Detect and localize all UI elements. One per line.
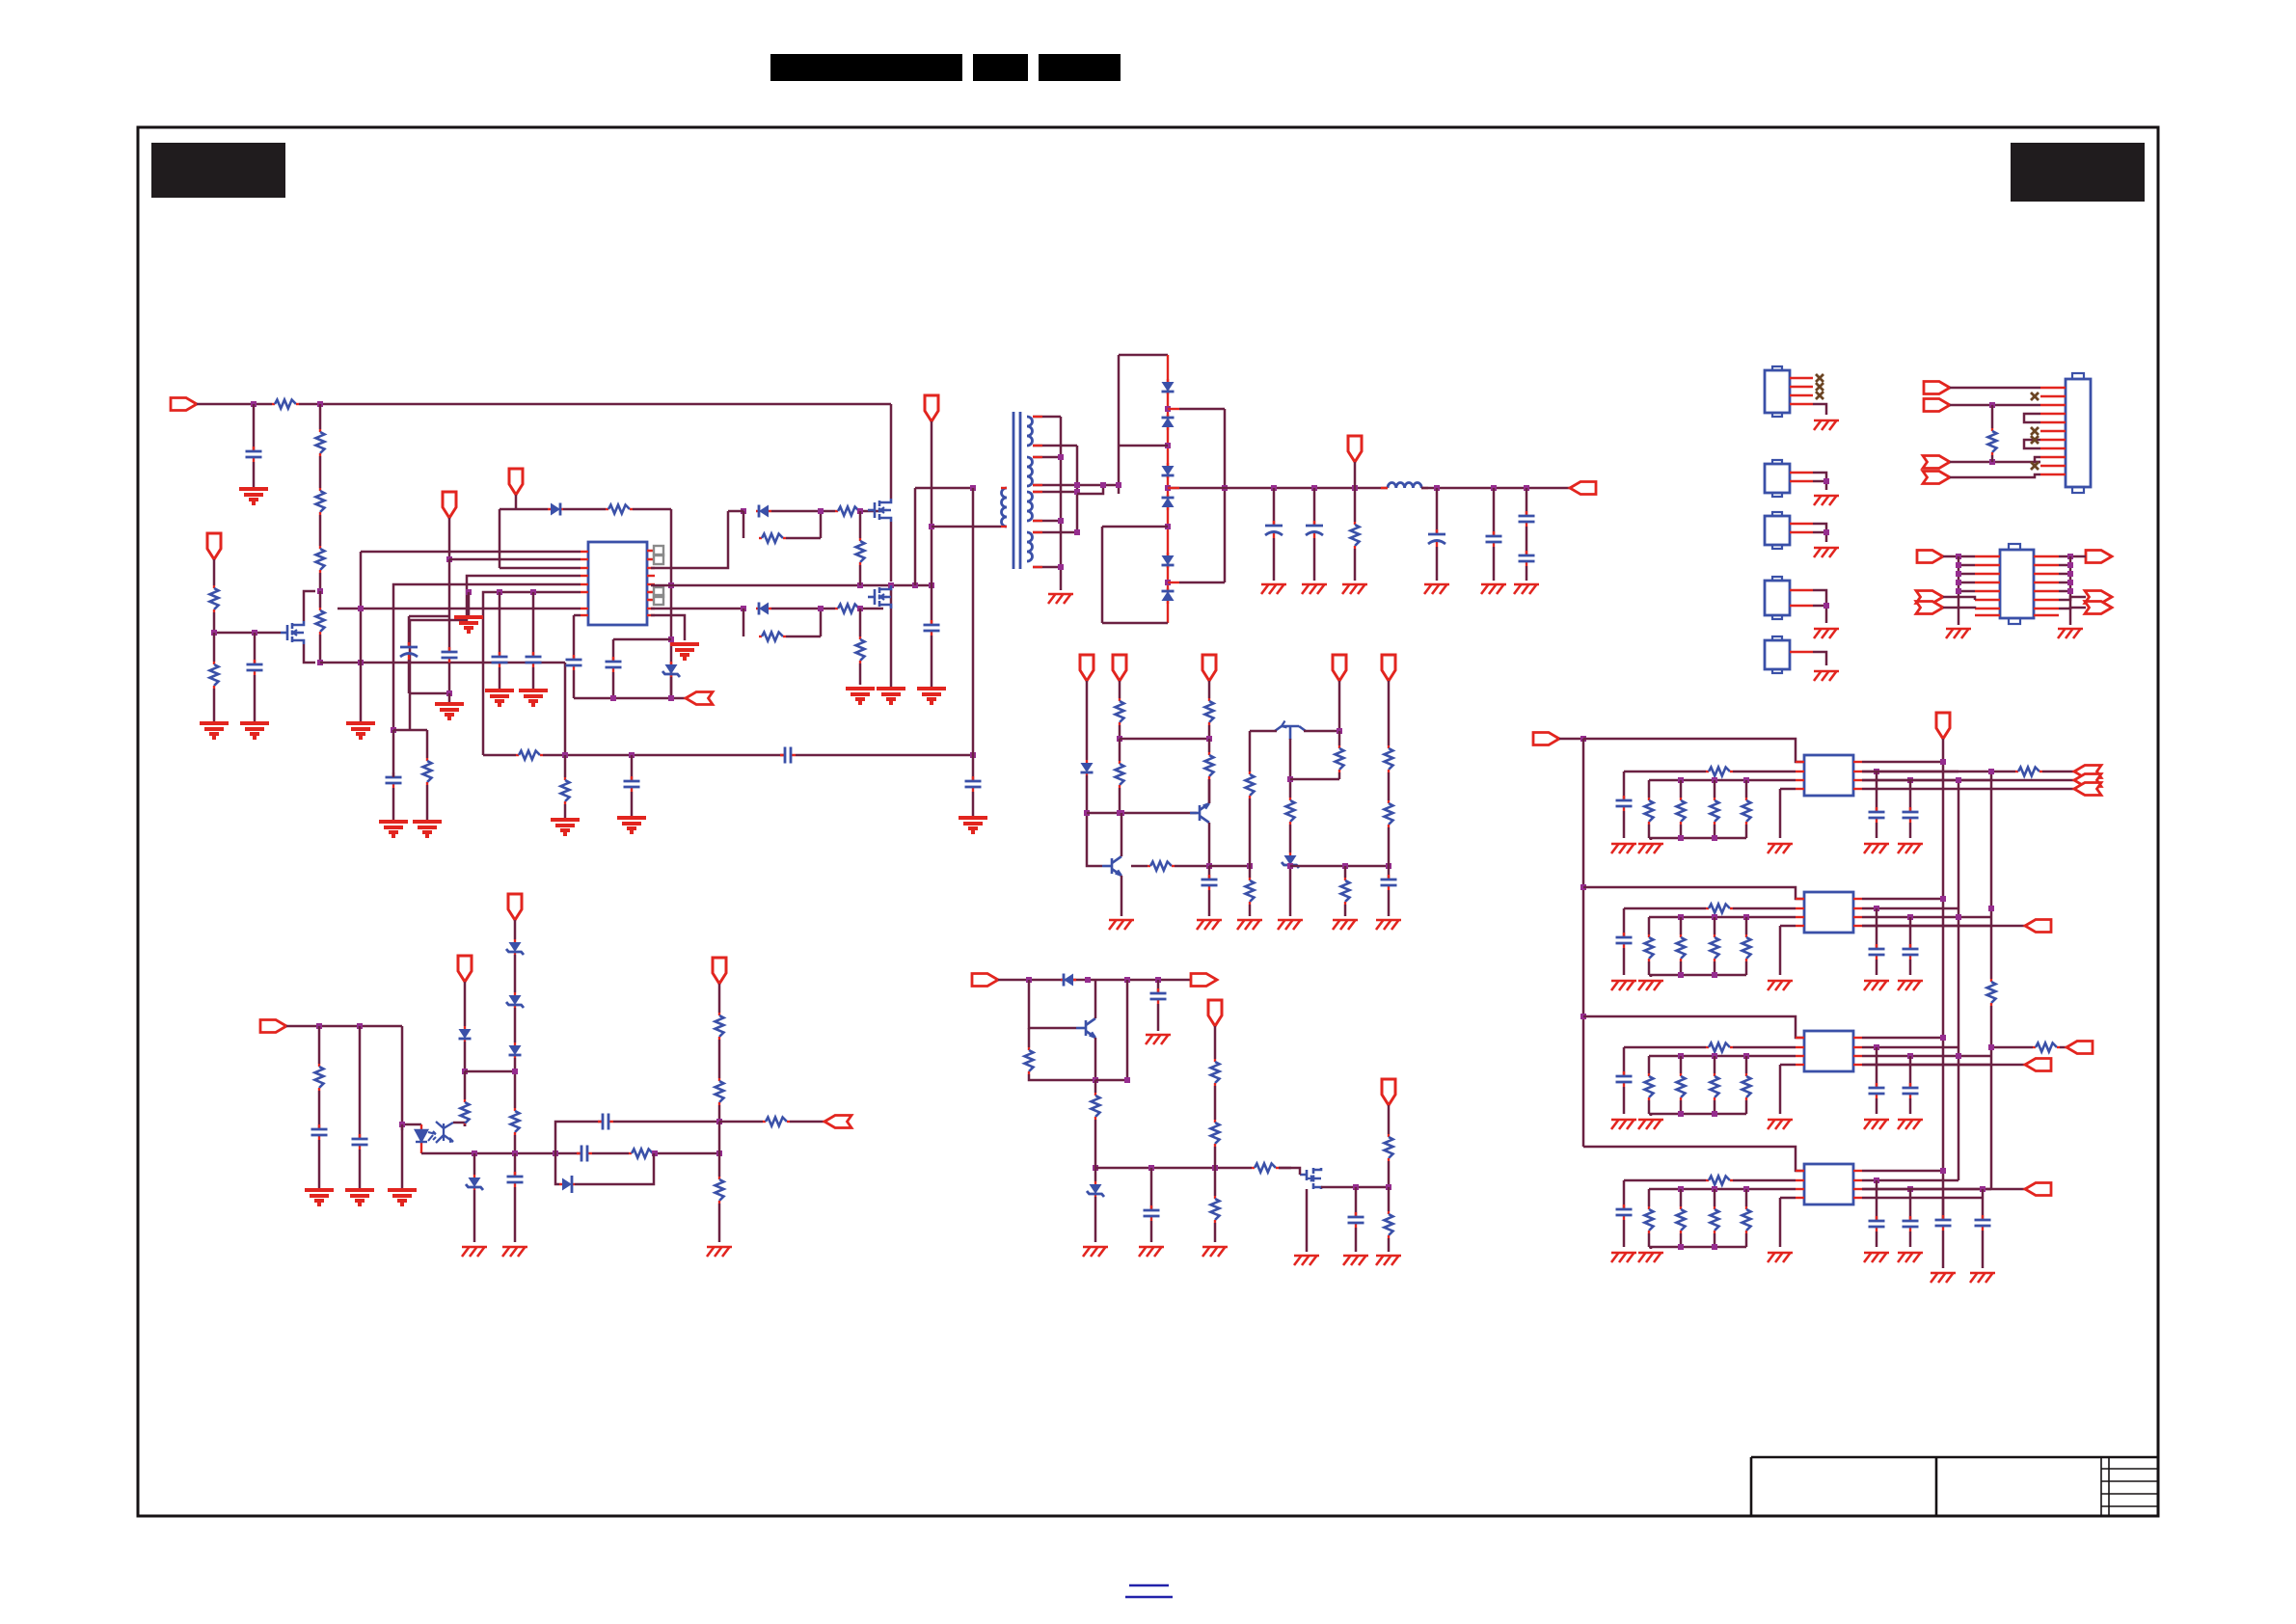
wire — [1714, 1189, 1716, 1206]
wire LED4 output — [1862, 1188, 2025, 1191]
wire — [1388, 866, 1391, 880]
capacitor C12 (polarized) — [1306, 521, 1323, 538]
wire rect out2 / main bus — [1168, 487, 1225, 490]
output tag FB — [686, 692, 713, 705]
resistor R15 — [856, 636, 865, 663]
wire — [1909, 1098, 1912, 1114]
junction — [399, 1122, 405, 1127]
wire — [514, 920, 517, 939]
junction — [1093, 1077, 1098, 1083]
junction — [1100, 482, 1106, 488]
wire CN7 right bus — [2069, 556, 2072, 625]
redaction bar 2 — [973, 54, 1028, 81]
power flag F — [458, 956, 472, 982]
junction — [1491, 485, 1497, 491]
wire — [1876, 1047, 1878, 1088]
ground — [1139, 1247, 1164, 1257]
wire — [1680, 1189, 1683, 1206]
ground — [502, 1247, 527, 1257]
wire — [1388, 1187, 1391, 1211]
wire — [631, 792, 634, 816]
wire — [426, 730, 429, 758]
junction — [1712, 1111, 1717, 1117]
junction — [610, 695, 616, 701]
wire — [1733, 1179, 1796, 1182]
junction — [912, 582, 918, 588]
resistor R47 — [2033, 1043, 2060, 1052]
diode D13 — [1061, 974, 1076, 987]
wire — [1208, 725, 1211, 739]
wire — [401, 1124, 404, 1188]
ground — [846, 689, 875, 703]
wire — [1623, 1047, 1626, 1076]
wire — [859, 565, 862, 585]
wire — [213, 689, 216, 721]
zener ZD4 — [506, 992, 524, 1008]
ground — [1611, 844, 1636, 853]
wire LED+ row — [1862, 1170, 1943, 1173]
wire — [1388, 1238, 1391, 1252]
capacitor C13 (polarized) — [1428, 529, 1445, 547]
connector CN2 — [1765, 366, 1790, 417]
wire — [1958, 590, 1975, 593]
junction — [1580, 884, 1586, 890]
wire — [318, 1091, 321, 1129]
wire LED1 row4 ext — [1991, 788, 2074, 791]
junction — [1124, 977, 1130, 983]
ground — [877, 689, 905, 703]
wire U1 pin4 net — [410, 576, 581, 730]
junction — [818, 508, 824, 514]
wire — [1648, 917, 1651, 934]
ground — [1481, 584, 1506, 594]
wire — [1249, 866, 1252, 878]
ground — [305, 1190, 334, 1204]
resistor R45 — [1987, 979, 1996, 1006]
wire — [1087, 775, 1102, 866]
wire — [1745, 1233, 1748, 1247]
wire pin4 gnd — [1780, 1064, 1796, 1067]
resistor R4 — [316, 546, 325, 573]
wire — [213, 559, 216, 585]
resistor R46 — [2015, 768, 2042, 776]
junction — [1580, 736, 1586, 742]
junction — [1823, 529, 1829, 535]
ground — [670, 644, 699, 659]
LED driver IC U20 — [1804, 892, 1853, 933]
junction — [1353, 1184, 1359, 1190]
junction — [668, 695, 674, 701]
junction — [1940, 1168, 1946, 1174]
junction — [1386, 1184, 1391, 1190]
junction — [1074, 529, 1080, 535]
wire — [575, 1153, 654, 1184]
wire S3 bottom — [1033, 520, 1061, 523]
wire — [213, 612, 216, 633]
resistor R5 — [316, 608, 325, 635]
wire LED1 enable feed — [1583, 739, 1804, 762]
resistor R28 — [1385, 800, 1393, 827]
wire — [1982, 1231, 1985, 1268]
wire — [1623, 1087, 1626, 1114]
wire — [1157, 1004, 1160, 1031]
wire — [1208, 890, 1211, 916]
ground — [1768, 1253, 1793, 1262]
junction — [857, 582, 863, 588]
wire — [1086, 681, 1089, 760]
junction — [857, 508, 863, 514]
wire — [473, 1153, 476, 1175]
wire row4 — [1862, 1064, 1991, 1067]
resistor R30 — [461, 1099, 470, 1126]
wire — [465, 1070, 515, 1073]
wire — [468, 592, 471, 615]
junction — [2067, 571, 2073, 577]
power flag A — [1080, 655, 1094, 681]
wire LED2 net row3 — [1649, 916, 1796, 919]
wire input rail — [197, 403, 272, 406]
capacitor C3 — [386, 772, 402, 788]
wire — [1313, 538, 1316, 581]
wire gate R bypass 2 — [743, 609, 745, 636]
junction — [741, 508, 746, 514]
wire aux — [914, 488, 917, 585]
ground — [1611, 1120, 1636, 1129]
junction — [358, 606, 364, 611]
junction — [1956, 914, 1961, 920]
diode D2 — [756, 505, 771, 518]
ground — [1638, 981, 1663, 990]
junction — [1074, 482, 1080, 488]
wire — [1388, 681, 1391, 745]
wire — [1648, 1233, 1651, 1247]
output tag LED1+ — [2074, 766, 2101, 778]
ground — [1333, 920, 1358, 930]
junction — [1212, 1165, 1218, 1171]
connector CN1 — [2066, 373, 2091, 493]
capacitor C1c — [1903, 807, 1919, 823]
wire — [1493, 547, 1496, 581]
wire — [514, 955, 517, 992]
junction — [1712, 914, 1717, 920]
resistor R12 — [856, 538, 865, 565]
wire — [1388, 827, 1391, 866]
wire — [612, 672, 615, 698]
wire Q8 source — [1306, 1189, 1309, 1252]
wire jog — [1290, 778, 1339, 781]
wire — [1950, 387, 2040, 390]
wire — [2059, 582, 2070, 584]
ground — [917, 689, 946, 703]
wire U1 pin7 out — [651, 608, 743, 610]
junction gate RC — [252, 630, 257, 636]
capacitor C5 — [526, 652, 542, 667]
capacitor C4d — [1935, 1215, 1952, 1231]
wire — [1876, 771, 1878, 812]
wire — [1958, 582, 1975, 584]
ground — [707, 1247, 732, 1257]
junction — [1222, 485, 1228, 491]
ground — [959, 818, 987, 832]
resistor R39 — [1252, 1164, 1279, 1173]
wire — [1650, 1114, 1653, 1116]
capacitor C23 — [598, 1114, 613, 1130]
wire — [1909, 823, 1912, 838]
ground — [1237, 920, 1262, 930]
wire — [514, 1008, 517, 1042]
resistor R3b — [1742, 1073, 1751, 1100]
wire — [1338, 772, 1341, 779]
wire — [2042, 771, 2074, 773]
wire — [1214, 1026, 1217, 1059]
wire — [998, 979, 1194, 982]
junction R4/Q1 drain — [317, 588, 323, 594]
wire — [1094, 1160, 1097, 1181]
junction Q1 source loop — [317, 660, 323, 665]
ground — [551, 820, 580, 834]
wire — [718, 1204, 721, 1242]
wire opto anode — [402, 1123, 421, 1126]
wire — [1714, 1056, 1716, 1073]
no-connect — [2031, 462, 2039, 470]
wire — [319, 404, 322, 429]
wire — [786, 537, 821, 540]
wire — [359, 1150, 362, 1188]
wire — [670, 677, 673, 698]
wire — [1733, 771, 1796, 773]
wire — [1559, 738, 1583, 741]
junction — [1352, 485, 1358, 491]
junction — [1206, 736, 1212, 742]
wire — [1733, 907, 1796, 910]
wire — [1950, 474, 2040, 477]
wire LED1 sense row — [1624, 771, 1706, 773]
wire — [1208, 779, 1211, 803]
resistor R17 — [1116, 698, 1124, 725]
wire — [1208, 866, 1211, 880]
wire — [1745, 961, 1748, 975]
capacitor C18 — [1381, 875, 1397, 890]
junction RC gnd net — [391, 727, 396, 733]
wire — [1175, 865, 1209, 868]
capacitor C2b — [1869, 944, 1885, 960]
junction — [1712, 835, 1717, 841]
output tag B5 — [2085, 591, 2112, 604]
resistor R26 — [1341, 878, 1350, 905]
resistor R2b — [1711, 934, 1719, 961]
resistor R10 — [835, 507, 862, 516]
diode D9 — [1162, 588, 1175, 604]
resistor R3b — [1677, 1073, 1686, 1100]
zener ZD6 — [559, 1176, 575, 1193]
transformer T1 secondary winding S3 — [1027, 492, 1033, 521]
wire S1 top — [1033, 416, 1061, 419]
ground — [345, 1190, 374, 1204]
LED driver IC U40 — [1804, 1164, 1853, 1204]
wire opto collector — [453, 1123, 465, 1126]
resistor R4a — [1706, 1177, 1733, 1185]
junction — [1823, 478, 1829, 484]
wire output bus — [1225, 487, 1388, 490]
wire Q6 base — [1289, 739, 1292, 798]
controller IC U1 — [588, 542, 647, 625]
ground — [435, 704, 464, 718]
ground — [379, 822, 408, 836]
capacitor C3c — [1903, 1083, 1919, 1098]
wire — [1648, 780, 1651, 798]
wire LED1 row3 — [1862, 779, 2074, 782]
output tag LED3- — [2025, 1059, 2051, 1071]
resistor R24 — [1286, 798, 1295, 825]
resistor R25 — [1336, 745, 1344, 772]
capacitor C22 — [577, 1146, 592, 1162]
wire — [612, 639, 615, 662]
ground — [519, 690, 548, 705]
resistor R1b — [1711, 798, 1719, 825]
wire sec tap bus B — [1076, 446, 1079, 532]
junction — [1989, 402, 1995, 408]
power flag J — [1382, 1079, 1395, 1105]
junction — [1165, 524, 1171, 529]
wire — [1991, 455, 1994, 462]
wire — [1150, 1221, 1153, 1242]
wire row2 — [1862, 907, 1958, 910]
wire row4 — [1862, 925, 1991, 928]
junction — [929, 582, 934, 588]
wire — [1526, 527, 1528, 555]
resistor R2b — [1677, 934, 1686, 961]
wire — [1943, 608, 1975, 609]
wire — [2059, 608, 2086, 609]
wire S2 top — [1033, 456, 1061, 459]
wire — [473, 1190, 476, 1242]
wire U1 pin5 net — [393, 584, 581, 730]
wire — [859, 511, 862, 538]
wire — [1279, 1167, 1291, 1170]
wire — [1876, 1232, 1878, 1247]
output tag B4 — [2086, 551, 2112, 563]
wire bottom bus — [1649, 837, 1746, 840]
ground CN4 — [1814, 548, 1839, 557]
wire — [573, 615, 576, 660]
wire — [1157, 980, 1160, 993]
wire — [631, 755, 634, 781]
capacitor C9 — [566, 655, 582, 670]
capacitor C31 — [624, 776, 640, 792]
ground — [1864, 981, 1889, 990]
input tag B1 — [1917, 551, 1943, 563]
resistor R44 — [1385, 1211, 1393, 1238]
wire — [1950, 461, 2040, 464]
wire — [1680, 1233, 1683, 1247]
wire — [319, 591, 322, 608]
resistor R1b — [1677, 798, 1686, 825]
junction — [818, 606, 824, 611]
connector CN1 pins — [2040, 387, 2066, 389]
wire — [718, 1040, 721, 1078]
junction — [1956, 1053, 1961, 1059]
rectifier column red link — [1167, 355, 1169, 623]
wire opto cathode — [421, 1152, 452, 1155]
capacitor C21 — [507, 1172, 524, 1187]
input tag FB2 — [260, 1020, 286, 1033]
power flag E — [1382, 655, 1395, 681]
ground — [617, 818, 646, 832]
output tag LED2 — [2025, 920, 2051, 933]
resistor R21 — [1205, 752, 1214, 779]
junction — [2067, 588, 2073, 594]
wire CN1 link B — [2024, 440, 2040, 448]
wire gate-return bus — [671, 584, 932, 587]
wire — [1876, 1098, 1878, 1114]
wire — [448, 559, 451, 616]
wire — [972, 755, 975, 781]
junction — [1337, 728, 1342, 734]
redaction bar 1 — [770, 54, 962, 81]
wire — [972, 792, 975, 816]
ground CN2 — [1814, 420, 1839, 430]
diode D5 — [1162, 415, 1175, 430]
junction — [1956, 554, 1961, 559]
wire — [1214, 1086, 1217, 1120]
capacitor C8 — [606, 657, 622, 672]
wire — [573, 670, 576, 698]
wire primary bottom lead — [932, 526, 1001, 528]
junction cap tap — [497, 589, 502, 595]
wire — [464, 1042, 467, 1071]
wire HV rail corner — [890, 404, 893, 499]
wire LED4 sense row — [1624, 1179, 1706, 1182]
wire — [613, 1121, 719, 1123]
wire — [1338, 681, 1341, 731]
wire — [1126, 980, 1129, 1080]
junction — [1085, 977, 1091, 983]
output tag LED1- — [2074, 774, 2101, 787]
ground CN5 — [1814, 629, 1839, 638]
wire — [1909, 1232, 1912, 1247]
wire — [1249, 798, 1252, 866]
wire — [771, 608, 835, 610]
wire node — [931, 421, 933, 625]
wire — [1779, 1065, 1782, 1114]
junction — [1940, 896, 1946, 902]
power flag H — [713, 958, 726, 984]
ground — [1146, 1035, 1171, 1044]
page border frame — [138, 127, 2158, 1516]
wire — [1289, 868, 1292, 916]
wire — [448, 616, 451, 652]
wire U1 pin7 net — [338, 608, 581, 610]
wire — [1714, 1233, 1716, 1247]
junction — [1712, 972, 1717, 978]
wire row4 — [1862, 788, 1991, 791]
junction — [1743, 1053, 1749, 1059]
wire — [1745, 1100, 1748, 1114]
wire — [1745, 1189, 1748, 1206]
ground — [240, 723, 269, 738]
output tag COMP — [824, 1116, 851, 1128]
wire Q7 base feed — [1029, 980, 1076, 1028]
wire — [1623, 771, 1626, 800]
junction — [1271, 485, 1277, 491]
junction half-bridge node — [888, 582, 894, 588]
resistor R2 — [316, 429, 325, 456]
wire — [1249, 905, 1252, 916]
ground — [1514, 584, 1539, 594]
wire rect top loop — [1119, 354, 1168, 357]
wire — [1680, 825, 1683, 838]
wire — [1214, 1223, 1217, 1242]
